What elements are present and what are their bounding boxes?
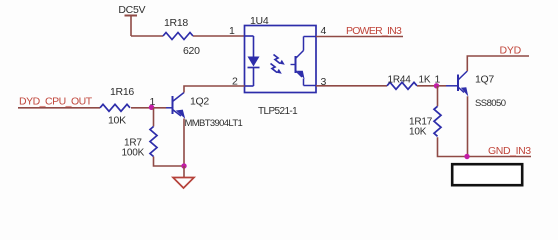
svg-text:1U4: 1U4 bbox=[250, 15, 269, 27]
ground bbox=[173, 166, 194, 188]
svg-text:620: 620 bbox=[183, 45, 200, 57]
svg-text:1: 1 bbox=[229, 25, 235, 37]
wire U4 pin 3 to R44 bbox=[316, 85, 387, 87]
svg-text:10K: 10K bbox=[108, 115, 126, 127]
svg-text:100K: 100K bbox=[122, 148, 145, 159]
photo-transistor inside U4 bbox=[291, 37, 317, 86]
resistor R16 (1R16 10K) bbox=[100, 86, 134, 127]
node junction R16/R7/Q2 bbox=[149, 105, 154, 110]
op-to-coupler U4 box bbox=[245, 15, 317, 117]
svg-text:1Q7: 1Q7 bbox=[475, 74, 494, 86]
LED inside U4 bbox=[245, 36, 260, 86]
resistor R18 (1R18 620) bbox=[163, 17, 200, 57]
node junction emitter/ground bbox=[181, 163, 186, 168]
wire Q7 collector to DYD bbox=[467, 56, 529, 71]
svg-text:DYD_CPU_OUT: DYD_CPU_OUT bbox=[19, 96, 93, 108]
svg-text:10K: 10K bbox=[409, 127, 427, 138]
svg-text:1R16: 1R16 bbox=[110, 86, 134, 98]
wire DYD_CPU_OUT to R16 bbox=[18, 107, 100, 109]
svg-text:1R44: 1R44 bbox=[388, 75, 412, 86]
wire R7 to ground rail bbox=[154, 157, 185, 167]
svg-text:GND_IN3: GND_IN3 bbox=[488, 145, 531, 157]
wire R17 to GND_IN3 rail bbox=[438, 137, 532, 156]
transistor Q7 (1Q7 SS8050) bbox=[446, 71, 506, 109]
svg-text:MMBT3904LT1: MMBT3904LT1 bbox=[185, 118, 243, 129]
wire R18 to U4 pin 1 bbox=[193, 35, 245, 37]
wire R16 to Q2 base bbox=[131, 107, 166, 109]
wire Q2 collector to U4 pin 2 bbox=[184, 86, 245, 93]
svg-text:TLP521-1: TLP521-1 bbox=[258, 106, 298, 117]
svg-text:DC5V: DC5V bbox=[118, 4, 145, 16]
light arrow 2 inside U4 bbox=[271, 64, 282, 74]
wire U4 pin 4 to POWER_IN3 bbox=[316, 36, 403, 38]
svg-text:4: 4 bbox=[321, 25, 327, 37]
node junction emitter/GND rail bbox=[464, 154, 469, 159]
wire DC5V to R18 bbox=[131, 35, 163, 37]
annotation box (empty black rectangle) bbox=[452, 164, 522, 185]
wire junction down to R17 bbox=[437, 86, 439, 107]
svg-text:1R18: 1R18 bbox=[164, 17, 188, 29]
wire junction down to R7 bbox=[153, 108, 155, 127]
node junction R44/R17/Q7 bbox=[434, 83, 439, 88]
svg-text:1K: 1K bbox=[419, 75, 431, 86]
light arrow 1 inside U4 bbox=[274, 55, 285, 65]
wire Q2 emitter to ground rail bbox=[183, 119, 185, 167]
power symbol DC5V bbox=[118, 4, 145, 36]
wire Q7 emitter down bbox=[467, 96, 469, 156]
svg-text:DYD: DYD bbox=[500, 45, 522, 57]
svg-text:SS8050: SS8050 bbox=[475, 98, 506, 109]
wire R44 to Q7 base bbox=[417, 85, 446, 87]
resistor R17 (1R17 10K) bbox=[409, 106, 441, 137]
svg-text:1Q2: 1Q2 bbox=[190, 96, 209, 108]
resistor R7 (1R7 100K) bbox=[122, 127, 158, 159]
svg-text:POWER_IN3: POWER_IN3 bbox=[346, 25, 402, 37]
resistor R44 (1R44 1K) bbox=[387, 75, 431, 90]
transistor Q2 (1Q2 MMBT3904LT1) bbox=[166, 93, 242, 130]
